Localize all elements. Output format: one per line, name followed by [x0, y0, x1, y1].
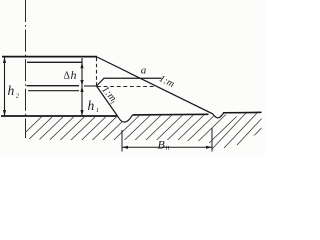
dimension Bn — [122, 128, 212, 152]
svg-text:B: B — [158, 138, 166, 152]
berm line with short inner slope — [97, 78, 162, 86]
ground line right — [223, 111, 262, 113]
svg-text:h: h — [71, 68, 77, 82]
svg-text:Δ: Δ — [64, 71, 71, 82]
ditch left of base — [118, 115, 133, 122]
dashed water level line right — [97, 86, 155, 88]
ground hatching — [17, 113, 273, 149]
svg-text:h: h — [8, 83, 15, 98]
lower water second line — [28, 90, 79, 92]
top bank line — [2, 56, 97, 58]
ground line left — [1, 115, 118, 117]
svg-text:н: н — [166, 143, 170, 152]
lower water surface line — [27, 85, 80, 87]
lower slope 1:m1 — [97, 86, 118, 116]
svg-text:2: 2 — [16, 93, 20, 100]
dashed vertical under crest — [96, 58, 98, 87]
svg-text:h: h — [88, 98, 95, 113]
dimension line dh/h1 — [80, 58, 83, 116]
svg-text:a: a — [141, 64, 147, 76]
svg-text:1: 1 — [96, 107, 99, 114]
main slope 1:m with toe ditch — [97, 57, 262, 118]
wire segment to slope vertex — [84, 85, 97, 87]
label 1:m1 on lower slope — [98, 84, 119, 106]
base platform line — [133, 113, 209, 116]
dimension h2 line — [3, 57, 6, 116]
upper water line — [27, 61, 82, 63]
centerline (dash-dot axis) — [25, 0, 27, 138]
